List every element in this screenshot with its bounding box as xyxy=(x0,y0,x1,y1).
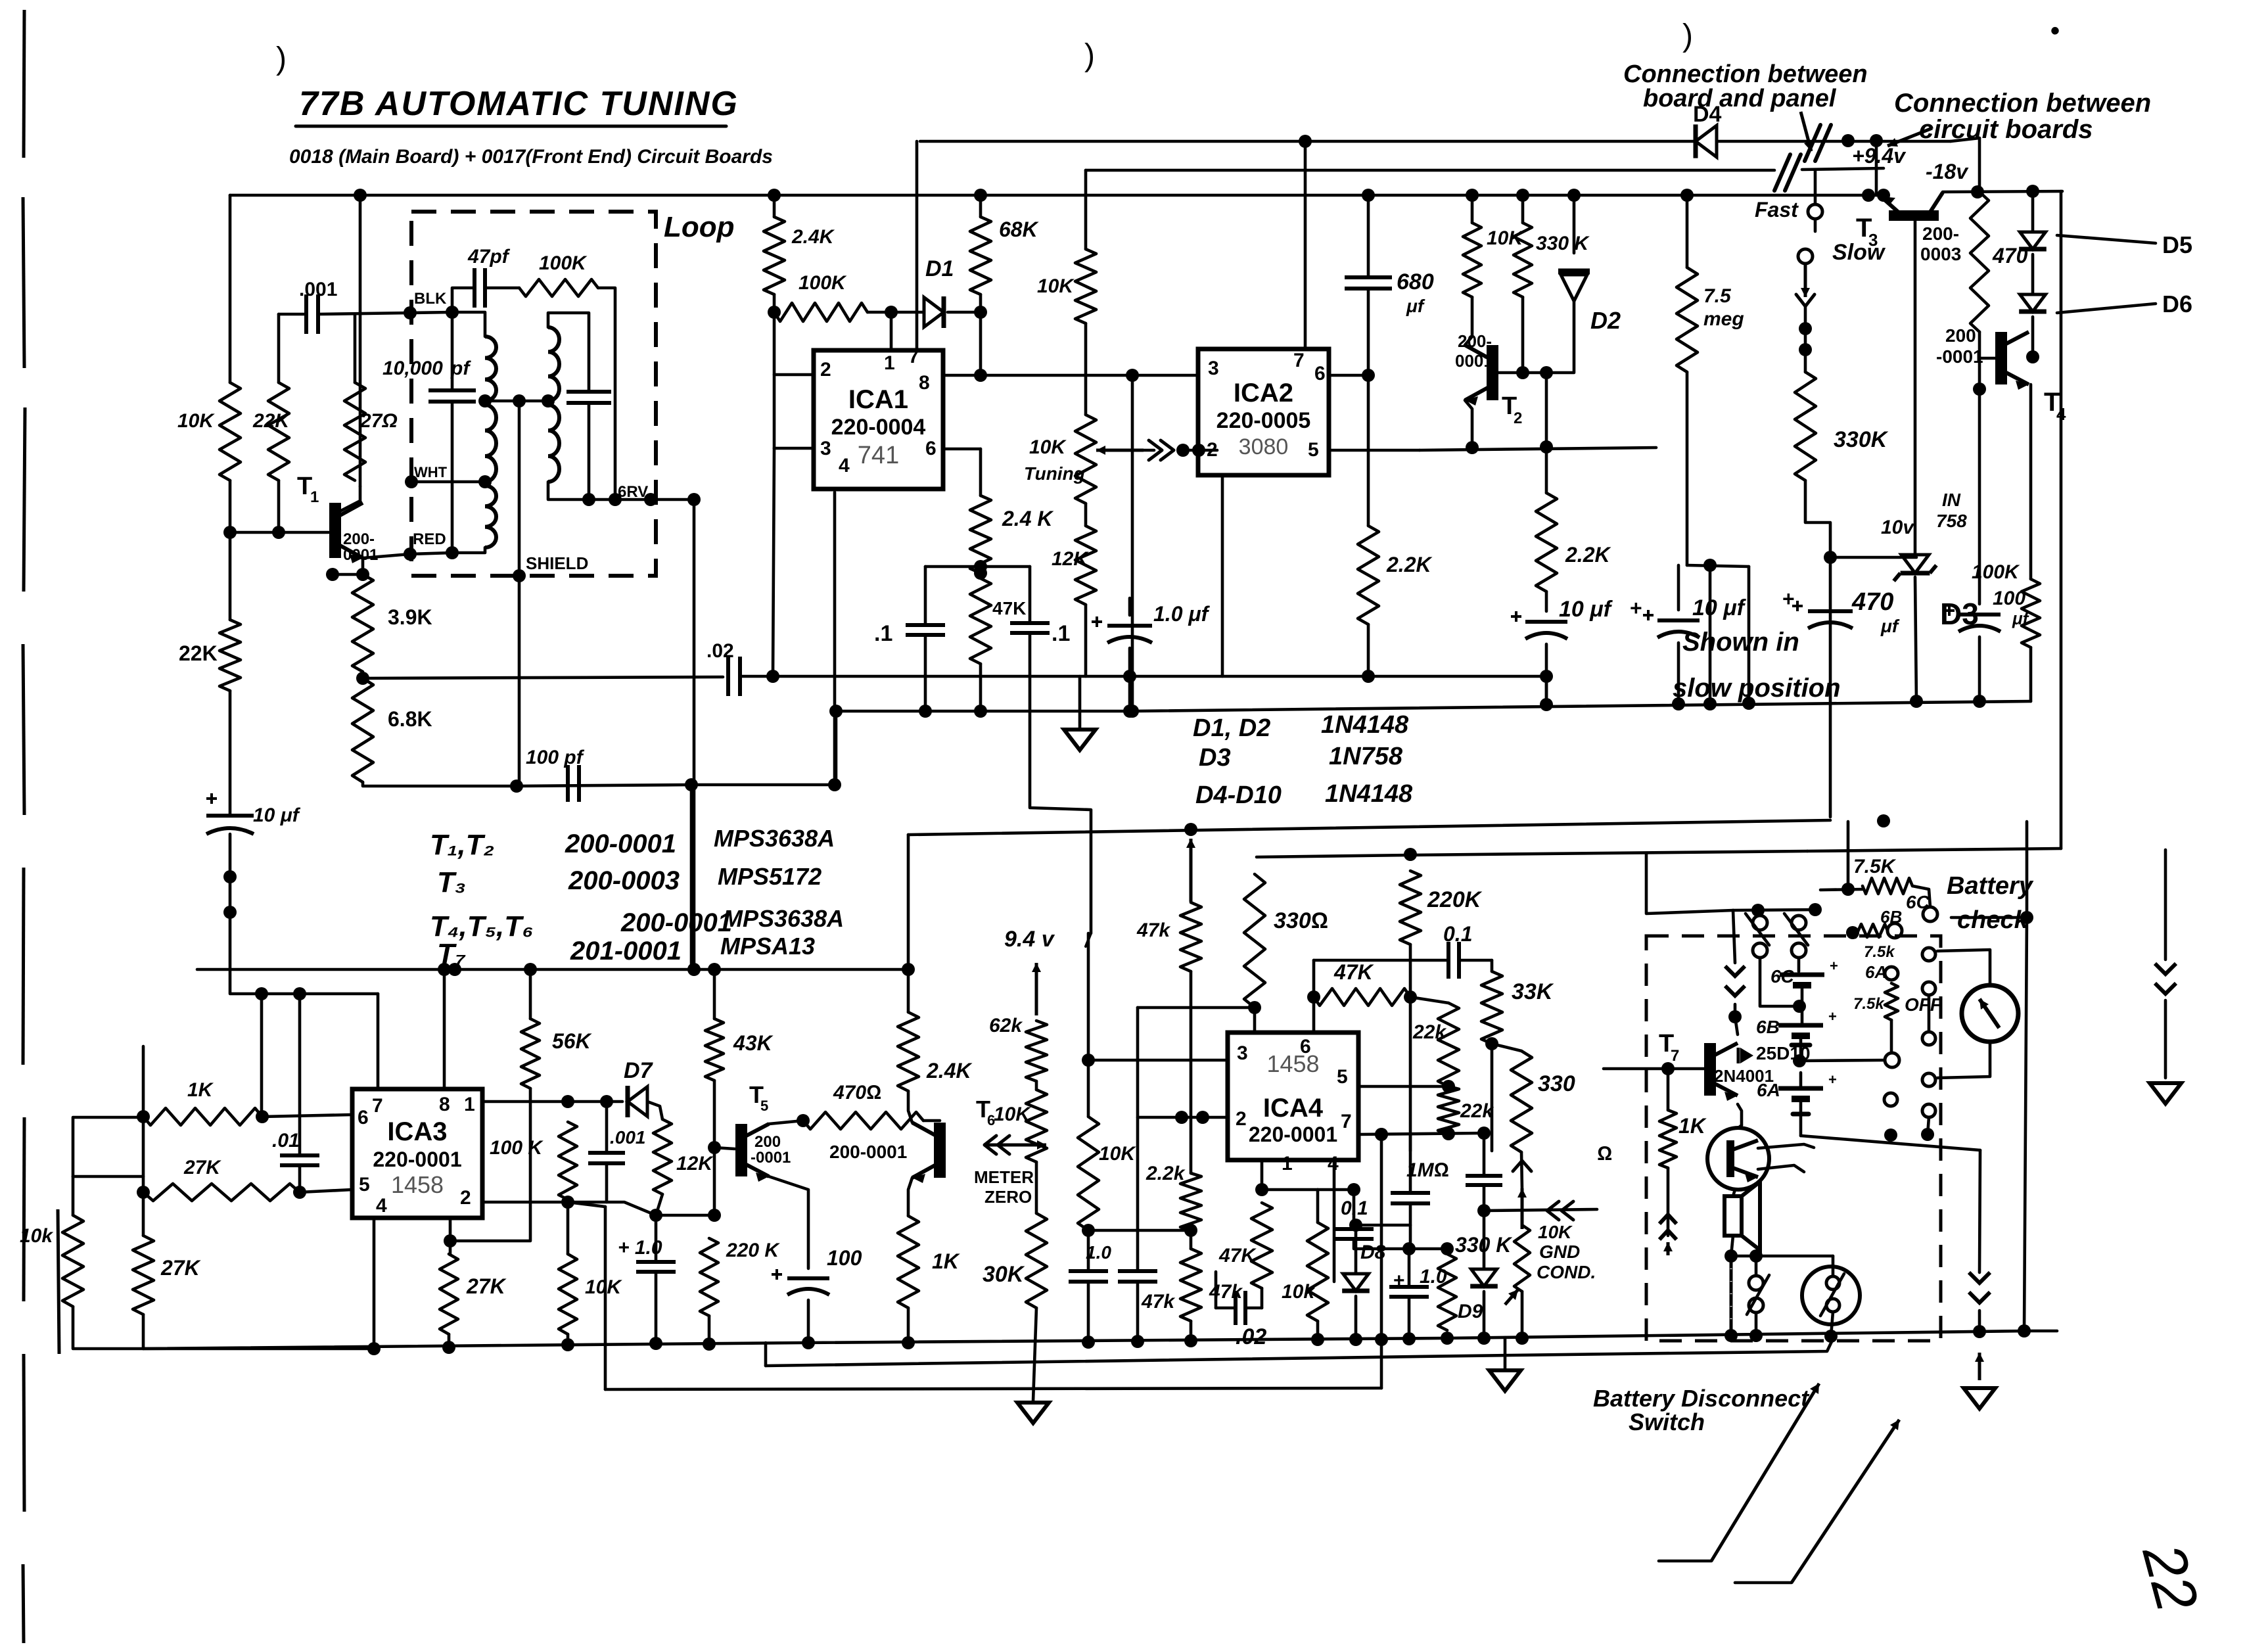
junction wht left xyxy=(405,475,418,488)
label RED xyxy=(413,530,446,548)
svg-text:BLK: BLK xyxy=(414,290,447,308)
battery cell 6A xyxy=(1757,1071,1837,1100)
wire D8 vert top xyxy=(1354,1225,1358,1274)
wire 6c to 6b xyxy=(1801,985,1804,1025)
arrow gnd cond up xyxy=(1517,1188,1527,1229)
wire loop top to 47pf xyxy=(452,288,474,312)
wire x1656 top xyxy=(1087,933,1090,1060)
label .001 bl xyxy=(610,1127,646,1148)
connector chevrons far right xyxy=(2155,964,2176,994)
junction tuning link b xyxy=(1192,444,1205,457)
label 1.0uf xyxy=(1153,602,1211,626)
svg-text:470: 470 xyxy=(1851,588,1893,616)
wire T6 collector xyxy=(908,1091,912,1123)
resistor 330K slow xyxy=(1795,372,1816,480)
label COND xyxy=(1537,1262,1596,1282)
svg-text:47pf: 47pf xyxy=(467,246,511,267)
wire speaker to bus dashed xyxy=(1730,1256,1733,1336)
svg-text:5: 5 xyxy=(1337,1066,1348,1088)
wire pin3 ICA4 wire xyxy=(1088,1059,1228,1062)
label 47K x1812 xyxy=(1136,919,1170,941)
wire gnd D9 stub xyxy=(1504,1337,1507,1370)
wire 1.0 bl down xyxy=(655,1272,658,1343)
resistor 7.5k bc3 xyxy=(1885,983,1898,1020)
diode D5 xyxy=(2019,232,2047,249)
svg-text:330 K: 330 K xyxy=(1536,233,1590,254)
capacitor 1.0 mid xyxy=(1389,1287,1429,1297)
svg-text:1.0: 1.0 xyxy=(1086,1242,1111,1263)
transistor driver inside xyxy=(1730,1140,1758,1182)
resistor 2.2K ICA2 xyxy=(1358,526,1379,624)
label D4-D10 xyxy=(1195,781,1282,809)
svg-text:7: 7 xyxy=(1341,1111,1352,1132)
resistor 220K bl xyxy=(700,1238,718,1316)
wire gnd cond bottom xyxy=(1521,1291,1524,1338)
svg-text:100 K: 100 K xyxy=(490,1137,544,1159)
wire far right chevron line xyxy=(2164,1000,2167,1078)
junction .1 top xyxy=(974,560,987,573)
svg-text:43K: 43K xyxy=(733,1031,774,1055)
wire 2.4k to 100k junction xyxy=(773,294,776,312)
phone jack blade xyxy=(1820,1274,1844,1316)
wire 27k r top xyxy=(449,1218,452,1254)
wire loop cap down xyxy=(588,403,591,500)
label 22K lower xyxy=(179,641,218,665)
svg-text:7.5k: 7.5k xyxy=(1853,995,1885,1013)
junction 1k right xyxy=(256,1110,269,1123)
label +100 xyxy=(827,1246,862,1270)
svg-text:1: 1 xyxy=(310,488,319,506)
arrow slow wiper xyxy=(1801,264,1810,297)
label 470uf plus xyxy=(1782,587,1795,611)
tbl T7 pn xyxy=(570,937,682,965)
wire 100k right down xyxy=(2029,647,2033,701)
resistor 10K T2 xyxy=(1463,223,1481,297)
junction 2.2k bus xyxy=(1362,670,1375,683)
svg-text:D2: D2 xyxy=(1590,307,1621,334)
junction speaker bus xyxy=(1724,1329,1738,1342)
wire jack top xyxy=(1832,1256,1835,1276)
arrow to circuit boards connection xyxy=(1887,128,1932,147)
svg-text:1: 1 xyxy=(1282,1153,1293,1174)
junction x1723 to minibus xyxy=(1126,705,1139,718)
switch contact slow xyxy=(1798,249,1813,264)
resistor 22K left xyxy=(268,383,289,480)
svg-text:47k: 47k xyxy=(1141,1291,1175,1313)
capacitor .1 x1731 xyxy=(1118,1271,1157,1282)
connector chevron tuning 1 xyxy=(1149,440,1162,460)
switch contact m c1 xyxy=(1922,948,1935,961)
wire gnd cond top arrow xyxy=(1521,1190,1524,1225)
wire pin3 xyxy=(774,447,814,450)
wire 100k to D1 xyxy=(868,311,924,314)
svg-text:6C: 6C xyxy=(1770,966,1795,987)
arrow 9.4v up xyxy=(1032,963,1041,1015)
label OFF xyxy=(1905,994,1942,1015)
wire 330k slow bottom xyxy=(1805,480,1830,557)
junction 220k bl gnd xyxy=(703,1337,716,1351)
wire x3087 long xyxy=(2024,918,2027,1331)
wire x1567 down long xyxy=(1030,711,1091,933)
resistor 2.2K x1812 xyxy=(1180,1173,1201,1230)
svg-text:4: 4 xyxy=(376,1195,387,1217)
junction T4 base/100uf col xyxy=(1973,383,1986,396)
junction 100k right bottom xyxy=(609,493,622,506)
diode D6 xyxy=(2019,294,2047,312)
wire .02 right xyxy=(1245,1307,1262,1310)
junction pin7 x2102 xyxy=(1375,1128,1388,1141)
svg-text:0001: 0001 xyxy=(343,546,378,564)
svg-text:.02: .02 xyxy=(1236,1324,1266,1349)
pot wiper arrow tuning xyxy=(1096,446,1144,455)
junction 7.5k row2 left xyxy=(1846,926,1859,939)
label D5 xyxy=(2162,231,2192,258)
wire 56k bottom L xyxy=(450,1088,530,1241)
junction mid link b xyxy=(542,394,555,407)
junction batt bottom b xyxy=(1921,1128,1934,1141)
svg-text:OFF: OFF xyxy=(1905,994,1942,1015)
wire 10uf1 down xyxy=(1545,644,1548,705)
wire 100k to pin2 wire xyxy=(567,1199,570,1202)
resistor 10K x1656 xyxy=(1078,1117,1099,1230)
wire D6 down xyxy=(2031,317,2035,357)
svg-text:200-0001: 200-0001 xyxy=(565,829,676,858)
svg-text:10v: 10v xyxy=(1881,517,1915,538)
label METER ZERO a xyxy=(974,1167,1034,1187)
wire 680 cap vert xyxy=(1367,195,1370,277)
wire T2 emitter xyxy=(1465,400,1472,447)
resistor 62K xyxy=(1026,1021,1047,1081)
label .02 ICA4 xyxy=(1236,1324,1266,1349)
wire D9 down xyxy=(1483,1291,1486,1338)
junction RED node xyxy=(404,547,417,561)
wire h5 to battcheck xyxy=(1847,822,1850,889)
artifact paren 2 xyxy=(1084,38,1095,73)
svg-text:6: 6 xyxy=(358,1107,369,1128)
junction shield bottom node xyxy=(510,779,523,793)
arrow gnd cond wiper2 xyxy=(1505,1290,1518,1305)
wire 470 to T4 base xyxy=(1979,332,1995,358)
wire 10000pf bottom xyxy=(451,402,454,553)
svg-text:6B: 6B xyxy=(1756,1017,1780,1037)
junction 6RV xyxy=(644,493,657,506)
switch blade bd xyxy=(1747,1275,1769,1314)
wire s2 down xyxy=(1797,958,1801,971)
wire 1.0uf vert xyxy=(1128,676,1132,711)
svg-text:10K: 10K xyxy=(1099,1143,1136,1165)
resistor 47K x1812 bottom xyxy=(1180,1249,1201,1321)
svg-text:47k: 47k xyxy=(1209,1281,1243,1303)
svg-text:.01: .01 xyxy=(272,1130,300,1151)
wire chevron to T7 collector xyxy=(1734,1004,1737,1017)
resistor 330 GND xyxy=(1511,1051,1532,1152)
arrow to panel connection xyxy=(1801,112,1813,151)
potentiometer 10K tuning xyxy=(1075,415,1096,503)
junction y1475 x1087 xyxy=(708,963,721,976)
op-amp ICA2 220-0005 xyxy=(1198,349,1329,475)
junction 27k r gnd xyxy=(442,1341,455,1354)
svg-text:1458: 1458 xyxy=(391,1171,444,1198)
label 2.2K ICA2 xyxy=(1386,553,1433,576)
capacitor .02 xyxy=(728,657,740,696)
wire 1k to pin6 xyxy=(262,1115,352,1117)
svg-text:3: 3 xyxy=(1237,1042,1248,1064)
wire 1M down xyxy=(1409,1203,1412,1249)
svg-text:WHT: WHT xyxy=(414,464,448,480)
wire emitter stub xyxy=(333,573,363,576)
wire D8 down xyxy=(1354,1296,1358,1339)
resistor 43K xyxy=(705,1019,724,1081)
svg-text:-0001: -0001 xyxy=(751,1149,791,1167)
label 9.4 v xyxy=(1004,927,1055,952)
diode D2 xyxy=(1558,271,1590,301)
label .01 xyxy=(272,1130,300,1151)
wire T7 emitter xyxy=(1738,1104,1742,1125)
capacitor 100uf right xyxy=(1944,605,2001,632)
wire 68k to pin8 wire xyxy=(979,312,983,375)
svg-text:201-0001: 201-0001 xyxy=(570,937,682,965)
wire 22k a top xyxy=(1410,997,1448,1003)
wire 6b下 bar xyxy=(1792,1043,1810,1048)
wire 7.5k bc to contact xyxy=(1912,886,1930,907)
svg-text:Connection between: Connection between xyxy=(1894,89,2151,118)
capacitor .001 xyxy=(306,294,318,334)
wire .02 hang xyxy=(1215,1272,1218,1308)
wire bus H3 into T3 emitter xyxy=(1881,195,1884,197)
capacitor loop right xyxy=(567,392,611,403)
wire 6a bottom bar xyxy=(1793,1112,1809,1117)
wire 0.1 left down xyxy=(1312,960,1316,997)
wire D7 to 12k xyxy=(647,1102,662,1119)
svg-text:Battery: Battery xyxy=(1947,872,2034,900)
svg-text:27Ω: 27Ω xyxy=(359,410,398,432)
label 47K mid xyxy=(992,598,1026,618)
label 10K x1656 xyxy=(1099,1143,1136,1165)
svg-text:T₁,T₂: T₁,T₂ xyxy=(430,829,494,861)
svg-text:3: 3 xyxy=(1208,358,1219,379)
junction batt feed a xyxy=(1751,904,1765,917)
label connection between board and panel 1 xyxy=(1623,60,1868,88)
switch contact bd2 xyxy=(1749,1298,1763,1313)
label 330 gnd xyxy=(1538,1071,1575,1096)
svg-text:3080: 3080 xyxy=(1239,434,1289,459)
junction 470 top xyxy=(1824,551,1837,564)
junction mini bus left xyxy=(829,705,843,718)
resistor 56K xyxy=(521,1019,540,1088)
connector chevrons 1k bottom xyxy=(1659,1215,1677,1240)
capacitor .1 right xyxy=(1010,623,1050,633)
svg-text:5: 5 xyxy=(1308,439,1319,461)
tbl T1T2 xyxy=(430,829,494,861)
junction top bus dots near T3 xyxy=(1862,189,1875,202)
label Switch xyxy=(1629,1408,1705,1435)
wire T2 col down xyxy=(1545,373,1548,493)
junction top bus dots near T3 b xyxy=(1877,189,1890,202)
wire WHT xyxy=(411,480,485,484)
svg-text:0018 (Main Board) + 0017(Front: 0018 (Main Board) + 0017(Front End) Circ… xyxy=(289,146,773,168)
svg-text:77B AUTOMATIC TUNING: 77B AUTOMATIC TUNING xyxy=(299,85,739,123)
wire 33k down xyxy=(1491,1044,1494,1151)
label 100 K xyxy=(490,1137,544,1159)
wire bd bottom xyxy=(1755,1313,1758,1336)
label T3 sub xyxy=(1868,230,1878,250)
switch contact s2a xyxy=(1792,916,1806,930)
svg-text:7: 7 xyxy=(1671,1047,1679,1065)
wire 12k to node xyxy=(656,1194,662,1215)
wire 47k down xyxy=(979,664,983,711)
wire mini bus left down xyxy=(835,711,838,785)
wire 27k bl to pin5 xyxy=(300,1190,352,1192)
wire 6.8k bottom xyxy=(363,782,517,786)
junction pin2 dots b xyxy=(1196,1111,1209,1124)
transistor T7 xyxy=(1710,1043,1738,1101)
svg-text:10K: 10K xyxy=(1538,1222,1573,1242)
wire T1 emitter xyxy=(363,553,452,558)
wire batt feed top xyxy=(1733,910,1818,910)
wire 30k through buses xyxy=(1033,1308,1036,1401)
label 22K left xyxy=(252,410,290,432)
transistor T1 xyxy=(335,503,363,563)
wire 47k ica4 bottom xyxy=(1261,1288,1264,1308)
svg-text:Ω: Ω xyxy=(1597,1143,1612,1165)
svg-text:330Ω: 330Ω xyxy=(1274,908,1328,933)
svg-text:100: 100 xyxy=(827,1246,862,1270)
tbl T456 xyxy=(430,910,534,942)
wire zener down xyxy=(1915,577,1916,701)
wire link to ICA2 pin2 xyxy=(1183,449,1217,452)
resistor 100K loop xyxy=(519,279,598,296)
junction T2 emitter pin5 wire xyxy=(1466,441,1479,454)
connector chevron gc2 xyxy=(1562,1201,1573,1220)
label D7 xyxy=(624,1058,654,1083)
resistor 330K T2 xyxy=(1514,223,1532,297)
svg-text:27K: 27K xyxy=(466,1274,507,1298)
junction battcheck lead xyxy=(1841,883,1855,896)
wire pin6 down to 2.4k xyxy=(979,449,983,496)
wire 1.0uf top xyxy=(1128,598,1132,615)
wire .001 vert xyxy=(605,1102,609,1153)
wire .02 ica4 wire xyxy=(1216,1307,1236,1310)
label 330K slow xyxy=(1834,427,1889,452)
wire bus A after D4 xyxy=(1717,140,1951,143)
junction shield dash xyxy=(513,569,526,582)
label 22k b xyxy=(1460,1100,1494,1122)
wire 330 to x1731 xyxy=(1138,1006,1255,1010)
wire pin2 return left vert xyxy=(604,1207,607,1389)
label T4 sub xyxy=(2056,404,2066,424)
diode D9 xyxy=(1470,1269,1498,1286)
label 10k pot xyxy=(994,1104,1031,1125)
junction T5 base node xyxy=(708,1141,721,1154)
svg-text:1K: 1K xyxy=(932,1249,961,1273)
svg-text:220K: 220K xyxy=(1427,887,1483,912)
wire shield vertical xyxy=(518,401,521,576)
junction y1475 x807 xyxy=(524,963,537,976)
wire 43k col xyxy=(713,1081,716,1215)
label T5 pn b xyxy=(751,1149,791,1167)
label 56K xyxy=(552,1029,593,1053)
svg-text:680: 680 xyxy=(1397,269,1434,294)
label Fast xyxy=(1755,198,1799,221)
svg-text:μf: μf xyxy=(1880,616,1900,636)
wire D5 chain top xyxy=(2031,191,2035,232)
wire .001 right to BLK xyxy=(318,313,410,314)
wire 33k vert xyxy=(1491,960,1494,971)
svg-text:758: 758 xyxy=(1936,511,1967,531)
svg-text:3.9K: 3.9K xyxy=(388,605,432,629)
wire 6RV to right xyxy=(693,500,696,969)
wire driver output 1 xyxy=(1758,1144,1814,1148)
label 6C bc xyxy=(1906,892,1930,912)
resistor 12K xyxy=(1075,526,1096,605)
junction pin8 node xyxy=(974,369,987,382)
svg-text:ICA4: ICA4 xyxy=(1263,1094,1324,1123)
junction left rail dot1 xyxy=(223,870,237,883)
svg-text:22k: 22k xyxy=(1460,1100,1494,1122)
arrow 1k bottom up xyxy=(1663,1242,1673,1255)
label connection between board and panel 2 xyxy=(1643,85,1837,112)
svg-text:2: 2 xyxy=(820,359,831,381)
svg-text:1K: 1K xyxy=(1678,1114,1707,1138)
wire 0.1 ica4 top xyxy=(1353,1190,1356,1229)
label 10uf plus 2 xyxy=(1630,596,1642,620)
junction top bus dot at x548 xyxy=(354,189,367,202)
svg-text:D1, D2: D1, D2 xyxy=(1193,714,1270,742)
wire right col to bus xyxy=(1978,1311,1981,1332)
wire T1 emitter down xyxy=(361,558,365,574)
transistor T2 xyxy=(1465,345,1493,406)
wire 330k top xyxy=(1521,195,1525,223)
wire pin6 out xyxy=(943,448,981,451)
battery cell 6C xyxy=(1770,958,1838,987)
label T5 pn a xyxy=(754,1133,781,1151)
resistor 27ohm xyxy=(344,383,365,480)
junction 47k x1812 gnd xyxy=(1184,1334,1197,1347)
junction 1k left xyxy=(137,1110,150,1123)
label 7.5 meg a xyxy=(1703,285,1732,307)
wire bd top xyxy=(1755,1256,1758,1276)
wire T5 base xyxy=(714,1148,735,1149)
wire x1656 to cap xyxy=(1087,1230,1090,1271)
wire batt feed chevron col xyxy=(1733,910,1735,963)
svg-text:330K: 330K xyxy=(1834,427,1889,452)
label SHIELD xyxy=(526,553,588,573)
connector chevron slow xyxy=(1796,294,1815,306)
wire 7.5meg top xyxy=(1686,195,1689,267)
svg-text:.1: .1 xyxy=(874,621,892,646)
wire .1 group top xyxy=(925,565,1030,569)
junction 33k bottom xyxy=(1485,1037,1498,1050)
switch blade s1 xyxy=(1746,914,1769,945)
wire pin2 to return xyxy=(568,1202,605,1207)
junction bus A dot at x1986 xyxy=(1299,135,1312,148)
junction speaker bottom b xyxy=(1749,1249,1763,1263)
junction pin2 100k xyxy=(561,1196,574,1209)
junction 6rv drop at bus xyxy=(687,963,701,976)
arrow to bd switch xyxy=(1711,1384,1819,1561)
junction x1731 gnd xyxy=(1131,1335,1144,1348)
title underline xyxy=(296,125,726,128)
wire gnd cond wiper wire xyxy=(1484,1209,1597,1211)
label check xyxy=(1957,906,2029,934)
label 68K xyxy=(999,218,1040,241)
wire top bus +9.4v rail xyxy=(230,194,1884,197)
wire 220k down xyxy=(1409,944,1412,1151)
wire 1.0 mid vert xyxy=(1408,1249,1411,1287)
svg-text:Loop: Loop xyxy=(664,211,735,243)
wire T2 base xyxy=(1498,371,1523,375)
wire 100K to right vert xyxy=(598,288,615,500)
